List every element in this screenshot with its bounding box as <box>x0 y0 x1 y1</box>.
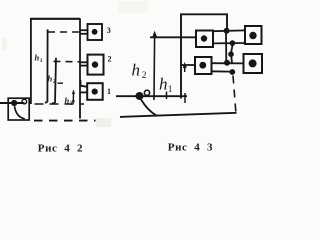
dimension line h1 <box>45 29 48 102</box>
tank top edge <box>30 18 81 20</box>
box 3 dot <box>92 29 98 35</box>
svg-text:3: 3 <box>70 101 73 107</box>
svg-text:h: h <box>159 75 168 94</box>
label h2 (fig 4.2) <box>48 74 56 86</box>
box UR dot <box>249 32 256 39</box>
wire UL to B to UR (lower) <box>213 42 245 44</box>
dimension line h2 (fig 4.3) with arrow <box>152 31 157 100</box>
zero level dashed line <box>35 103 85 105</box>
pump box <box>8 98 29 120</box>
tank left edge <box>30 19 32 105</box>
junction B <box>230 40 236 46</box>
box LL dot <box>199 62 206 69</box>
wire B down to D <box>231 43 232 54</box>
pump dot <box>11 100 17 106</box>
dimension line h2 <box>52 58 56 104</box>
pump arc <box>15 106 25 119</box>
pump arc (fig 4.3) <box>141 100 157 116</box>
sensor box 2 <box>88 55 104 75</box>
label h3 (fig 4.2) <box>65 96 73 108</box>
stub to box 2 upper <box>80 61 88 63</box>
svg-text:Рис 4 2: Рис 4 2 <box>38 143 83 155</box>
dimension line h1 (fig 4.3) with arrow <box>183 62 187 103</box>
svg-text:2: 2 <box>108 55 112 64</box>
junction A <box>224 28 230 34</box>
pump inlet line <box>0 102 25 104</box>
pump small circle <box>22 99 27 104</box>
svg-text:Рис 4 3: Рис 4 3 <box>168 142 213 154</box>
stub to box 3 upper <box>80 29 88 31</box>
junction E <box>229 69 235 75</box>
level line upper (to box UL) <box>150 36 196 38</box>
svg-text:3: 3 <box>107 26 111 35</box>
wire D down to row line <box>230 55 233 64</box>
svg-text:h: h <box>35 53 40 63</box>
junction D <box>228 51 234 57</box>
wire LL to C to LR <box>211 62 244 64</box>
sensor box 1 <box>87 83 103 100</box>
tank right edge <box>79 19 81 119</box>
label h2 (fig 4.3) <box>132 61 147 82</box>
stub to box 1 lower <box>81 91 88 93</box>
pump dot (fig 4.3) <box>136 92 144 100</box>
label h1 (fig 4.2) <box>35 53 43 65</box>
svg-text:2: 2 <box>53 79 56 85</box>
wire UL to A to UR <box>213 29 245 32</box>
dimension arrow h3 (double) <box>72 90 75 105</box>
base line (pump line) <box>116 95 187 97</box>
box UL <box>196 31 213 48</box>
box 2 dot <box>92 61 98 67</box>
pump small circle (fig 4.3) <box>144 90 149 95</box>
level line 3 dashed <box>48 31 80 33</box>
svg-text:h: h <box>48 74 53 84</box>
bottom dashed line <box>34 120 96 122</box>
box LL <box>195 57 212 74</box>
wire LL lower to E <box>211 70 232 72</box>
dashed drop line <box>233 76 236 112</box>
junction C <box>224 60 230 66</box>
box 1 dot <box>92 89 98 95</box>
svg-text:h: h <box>132 61 141 80</box>
outer rect of fig 4.3 <box>181 14 227 98</box>
wire A down to C <box>225 31 227 63</box>
level line lower (to box LL) <box>181 64 195 66</box>
level line 1 dash <box>58 82 64 84</box>
box UR <box>245 26 262 44</box>
stub to box 1 upper (corner from right edge) <box>81 80 88 87</box>
svg-text:1: 1 <box>168 85 173 95</box>
scan smudges <box>2 1 148 127</box>
svg-text:h: h <box>65 96 70 106</box>
level line 2 dashed <box>54 60 81 62</box>
svg-text:2: 2 <box>142 71 147 81</box>
box LR dot <box>249 59 257 67</box>
tick on base line <box>166 92 168 100</box>
svg-text:1: 1 <box>40 58 43 64</box>
stub to box 2 lower <box>80 65 88 67</box>
ground line <box>120 113 237 117</box>
box UL dot <box>201 35 207 41</box>
sensor box 3 <box>88 24 103 40</box>
svg-text:1: 1 <box>107 87 111 96</box>
stub to box 3 lower <box>80 33 88 35</box>
label h1 (fig 4.3) <box>159 75 173 96</box>
box LR <box>244 54 263 73</box>
